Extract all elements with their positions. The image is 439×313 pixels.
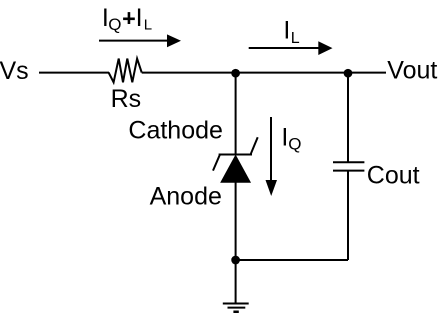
- svg-text:L: L: [144, 16, 152, 33]
- svg-text:Q: Q: [288, 135, 301, 154]
- svg-text:I: I: [283, 17, 290, 45]
- svg-text:Cout: Cout: [367, 162, 420, 190]
- svg-text:Vs: Vs: [0, 57, 29, 85]
- svg-text:Rs: Rs: [111, 85, 142, 113]
- svg-text:Cathode: Cathode: [128, 117, 223, 145]
- svg-text:L: L: [291, 30, 300, 47]
- svg-text:Anode: Anode: [150, 182, 222, 210]
- svg-text:I: I: [136, 4, 143, 32]
- svg-text:Q: Q: [108, 15, 121, 34]
- svg-text:Vout: Vout: [387, 57, 437, 85]
